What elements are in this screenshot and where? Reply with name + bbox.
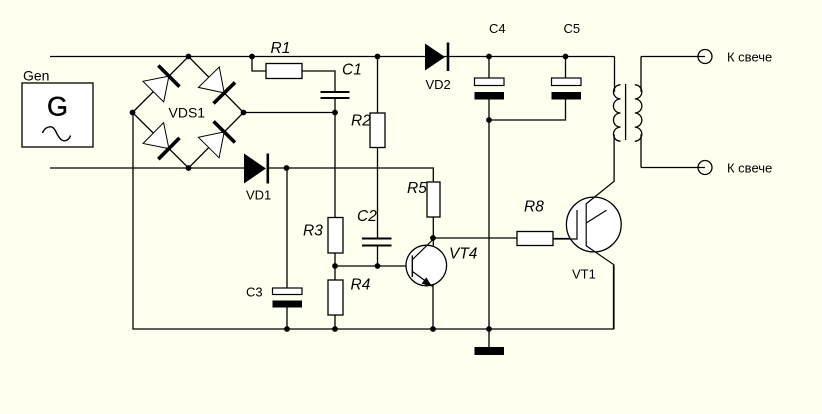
svg-text:VT4: VT4 xyxy=(449,246,478,263)
svg-text:R3: R3 xyxy=(303,223,323,240)
svg-text:VT1: VT1 xyxy=(572,267,596,282)
svg-text:R1: R1 xyxy=(271,40,291,57)
svg-text:VD1: VD1 xyxy=(246,188,271,203)
svg-text:VDS1: VDS1 xyxy=(169,105,206,121)
svg-text:C3: C3 xyxy=(246,285,263,300)
svg-text:R4: R4 xyxy=(351,277,371,294)
svg-text:G: G xyxy=(47,92,68,122)
svg-text:VD2: VD2 xyxy=(426,77,451,92)
svg-text:К свече: К свече xyxy=(727,161,772,176)
svg-text:R8: R8 xyxy=(524,199,544,216)
svg-text:C4: C4 xyxy=(489,21,506,36)
svg-text:C2: C2 xyxy=(357,208,377,225)
svg-text:R2: R2 xyxy=(351,113,371,130)
svg-text:R5: R5 xyxy=(407,180,427,197)
svg-text:Gen: Gen xyxy=(23,68,49,84)
svg-text:C1: C1 xyxy=(342,62,362,79)
svg-text:К свече: К свече xyxy=(727,50,772,65)
svg-text:C5: C5 xyxy=(564,21,581,36)
